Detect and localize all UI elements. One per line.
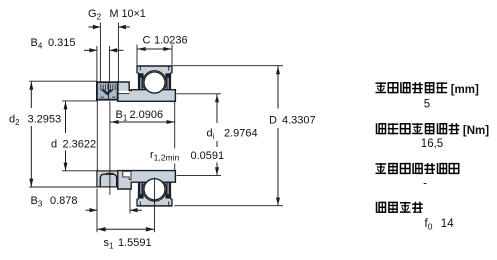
svg-text:M 10×1: M 10×1 [110,8,146,20]
svg-text:f0: f0 [425,218,433,232]
svg-text:-: - [423,177,427,189]
svg-text:d: d [51,138,57,150]
svg-text:B3: B3 [31,195,43,209]
svg-text:1.0236: 1.0236 [154,35,188,47]
svg-text:0.0591: 0.0591 [191,150,225,162]
svg-text:5: 5 [424,99,430,111]
svg-text:2.0906: 2.0906 [130,109,164,121]
svg-text:3.2953: 3.2953 [28,113,62,125]
svg-text:4.3307: 4.3307 [282,115,316,127]
svg-text:B4: B4 [31,37,43,51]
svg-text:di: di [207,128,215,142]
svg-text:G2: G2 [88,8,102,22]
svg-text:1.5591: 1.5591 [118,237,152,249]
svg-text:0.315: 0.315 [48,37,76,49]
svg-text:[mm]: [mm] [451,84,479,96]
svg-text:16,5: 16,5 [421,138,443,150]
svg-text:r1,2min: r1,2min [150,149,179,163]
svg-text:0.878: 0.878 [50,195,78,207]
svg-text:D: D [269,115,277,127]
svg-text:[Nm]: [Nm] [463,125,489,137]
svg-text:14: 14 [441,218,454,230]
svg-text:2.3622: 2.3622 [63,138,97,150]
svg-text:d2: d2 [9,113,20,127]
svg-text:2.9764: 2.9764 [224,128,258,140]
svg-text:B1: B1 [116,109,128,123]
svg-text:C: C [143,35,151,47]
svg-text:s1: s1 [104,237,115,251]
